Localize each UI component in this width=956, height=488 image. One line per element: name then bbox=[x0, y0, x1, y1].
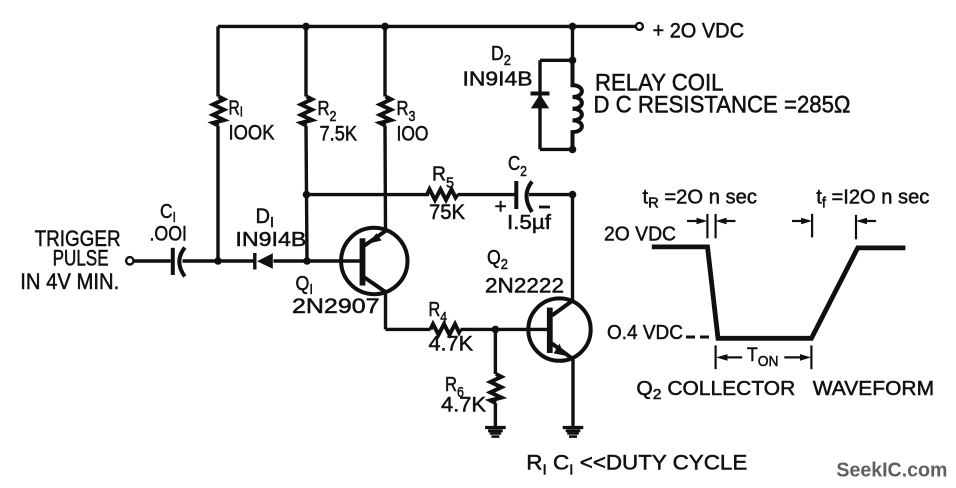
node rail/R3 junction bbox=[381, 23, 389, 31]
dimension tf right arrow bbox=[856, 218, 876, 225]
dimension TON right arrow bbox=[784, 354, 811, 361]
svg-text:75K: 75K bbox=[429, 201, 465, 224]
wire node to D1 bbox=[218, 259, 254, 262]
wire D1 to base node bbox=[274, 259, 308, 262]
svg-text:PULSE: PULSE bbox=[53, 246, 109, 271]
wire Q2 emitter down bbox=[571, 359, 574, 427]
node base junction bbox=[303, 257, 311, 265]
wire R4 to Q2 base bbox=[461, 328, 548, 331]
svg-text:D C RESISTANCE =285Ω: D C RESISTANCE =285Ω bbox=[594, 92, 851, 119]
svg-text:IOOK: IOOK bbox=[229, 122, 275, 145]
dimension TON bars bbox=[716, 345, 812, 369]
transistor Q2 bbox=[528, 298, 590, 360]
wire C2 to collector node bbox=[529, 193, 573, 196]
wire R2 bottom bbox=[304, 126, 308, 195]
dimension tR right arrow bbox=[716, 218, 736, 225]
wire collector to R4 bbox=[386, 328, 431, 331]
wire R5 to C2 bbox=[458, 193, 515, 196]
resistor R4 bbox=[431, 324, 461, 335]
svg-text:RI CI <<DUTY CYCLE: RI CI <<DUTY CYCLE bbox=[526, 451, 747, 479]
svg-text:tf =I2O n sec: tf =I2O n sec bbox=[816, 185, 929, 211]
node R2/R5 junction bbox=[303, 191, 311, 199]
svg-text:+ 2O VDC: + 2O VDC bbox=[653, 20, 745, 43]
node D2 top junction bbox=[569, 57, 577, 65]
node collector junction bbox=[569, 191, 577, 199]
node R1/trigger junction bbox=[214, 257, 222, 265]
wire R3 to Q1 emitter bbox=[383, 126, 387, 232]
wire C1 to R1 node bbox=[183, 259, 219, 262]
ground Q2 bbox=[563, 428, 584, 437]
transistor Q1 bbox=[341, 228, 407, 294]
diode D2 bbox=[531, 94, 550, 109]
resistor R6 bbox=[490, 374, 501, 403]
svg-text:IN 4V MIN.: IN 4V MIN. bbox=[20, 269, 119, 294]
svg-text:I.5µf: I.5µf bbox=[507, 211, 551, 234]
svg-text:4.7K: 4.7K bbox=[429, 333, 474, 356]
svg-text:2N2907: 2N2907 bbox=[292, 295, 380, 318]
terminal +20 VDC bbox=[636, 23, 643, 30]
wire relay top bbox=[571, 26, 574, 60]
svg-text:IN9I4B: IN9I4B bbox=[463, 68, 533, 91]
waveform Q2 collector bbox=[652, 247, 906, 338]
wire R6 top bbox=[494, 329, 497, 374]
diode D1 bbox=[255, 253, 273, 270]
node rail/R2 junction bbox=[302, 23, 310, 31]
capacitor C1 bbox=[173, 248, 185, 277]
terminal trigger input bbox=[126, 257, 133, 264]
wire R3 top bbox=[383, 26, 386, 96]
svg-text:tR =2O n sec: tR =2O n sec bbox=[643, 185, 758, 211]
wire R2 top bbox=[304, 26, 307, 96]
svg-text:7.5K: 7.5K bbox=[320, 123, 358, 146]
svg-text:2O VDC: 2O VDC bbox=[604, 223, 676, 246]
wire base node to R5 bbox=[307, 193, 430, 196]
resistor R2 bbox=[301, 97, 312, 126]
dimension tR left arrow bbox=[687, 218, 707, 225]
svg-text:4.7K: 4.7K bbox=[441, 394, 486, 417]
resistor R3 bbox=[380, 97, 391, 126]
wire Q2 collector up bbox=[571, 195, 574, 301]
wire D2 branch vertical bbox=[538, 60, 541, 149]
dashes 0.4 VDC bbox=[686, 336, 709, 339]
node rail/relay junction bbox=[569, 23, 577, 31]
dimension TON left arrow bbox=[716, 354, 742, 361]
wire +20V top rail bbox=[218, 25, 636, 28]
wire R1 bottom bbox=[216, 126, 219, 261]
resistor R1 bbox=[213, 97, 224, 126]
wire R1 top bbox=[216, 26, 219, 96]
wire D2 bottom bar bbox=[540, 148, 573, 151]
wire R6 to ground bbox=[494, 403, 497, 427]
wire base node vertical bbox=[305, 195, 309, 261]
dimension tf left arrow bbox=[792, 218, 812, 225]
wire trigger to C1 bbox=[134, 259, 171, 262]
node R6 junction bbox=[492, 326, 500, 334]
dimension tf ticks bbox=[812, 214, 856, 240]
svg-text:2N2222: 2N2222 bbox=[485, 275, 564, 298]
svg-text:SeekIC.com: SeekIC.com bbox=[836, 459, 947, 482]
node relay bottom junction bbox=[569, 146, 577, 154]
resistor R5 bbox=[427, 189, 458, 200]
dimension tR ticks bbox=[707, 214, 715, 238]
wire Q1 collector down bbox=[384, 292, 387, 329]
wire base node to Q1 bbox=[307, 259, 360, 262]
svg-text:IOO: IOO bbox=[397, 123, 429, 146]
wire D2 top bar bbox=[540, 59, 573, 62]
svg-text:O.4 VDC: O.4 VDC bbox=[607, 321, 683, 344]
svg-text:IN9I4B: IN9I4B bbox=[235, 228, 306, 251]
capacitor C2 bbox=[516, 181, 532, 212]
svg-text:+: + bbox=[495, 196, 507, 219]
label C2 minus bbox=[539, 206, 550, 209]
svg-text:Q2 COLLECTOR WAVEFORM: Q2 COLLECTOR WAVEFORM bbox=[636, 378, 934, 403]
ground R6 bbox=[485, 428, 506, 437]
svg-text:.OOI: .OOI bbox=[150, 223, 188, 246]
relay coil L1 bbox=[573, 60, 582, 149]
